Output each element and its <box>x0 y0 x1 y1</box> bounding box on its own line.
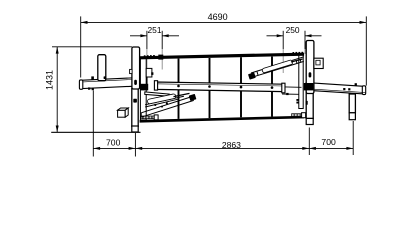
left post slot <box>134 80 137 85</box>
panel divider 3 <box>240 57 242 117</box>
ground line <box>51 131 140 133</box>
left leg top bolt <box>133 99 137 103</box>
left post side tab <box>130 69 133 73</box>
left beam end cap <box>79 80 82 89</box>
channel inner line <box>155 84 284 86</box>
left cylinder rod <box>174 93 190 96</box>
svg-text:4690: 4690 <box>208 12 228 22</box>
svg-text:251: 251 <box>148 25 162 35</box>
panel divider 1 <box>178 59 180 119</box>
right column side bolts <box>296 99 298 101</box>
dimension 2863 <box>135 128 309 156</box>
top rail bolt dots left <box>144 55 155 57</box>
right outrigger beam <box>306 83 365 94</box>
top rail bolt dots right <box>293 52 304 54</box>
right post bracket hole <box>316 60 320 65</box>
left outrigger beam <box>80 77 147 89</box>
dimension 4690 <box>81 16 367 85</box>
right beam end cap <box>362 86 365 95</box>
right rod adjuster block <box>302 113 306 118</box>
svg-text:2863: 2863 <box>222 140 241 150</box>
left main post <box>132 47 140 89</box>
dimension 250 <box>267 34 322 37</box>
right main post <box>306 41 314 94</box>
left column bracket bolt <box>151 72 153 75</box>
left column plate <box>140 57 146 120</box>
right post side bracket <box>314 58 323 68</box>
left column attach blob <box>140 84 148 91</box>
right beam top tab <box>355 83 357 85</box>
left arm pivot block <box>189 94 197 101</box>
dimension 700 left <box>93 90 135 156</box>
right leg <box>306 91 313 119</box>
panel divider 4 <box>271 57 273 117</box>
channel bolt 3 <box>240 86 243 89</box>
channel bolt 1 <box>177 85 180 88</box>
extension line 251 left <box>146 31 148 49</box>
channel right end plate <box>282 83 285 93</box>
extension line 251 right <box>161 31 163 49</box>
left cylinder <box>150 96 174 101</box>
dimension 700 right <box>309 121 353 155</box>
svg-text:700: 700 <box>106 137 121 147</box>
dimension 1431 <box>51 47 140 133</box>
right cylinder rod <box>291 59 303 62</box>
right foot <box>306 118 313 124</box>
left top link bar <box>145 92 169 96</box>
left beam under bolts <box>88 87 90 89</box>
left leg <box>132 89 138 127</box>
left threaded rod <box>141 116 157 119</box>
right outer foot <box>349 113 355 120</box>
connector bar to column <box>285 86 302 88</box>
extension line 250 right <box>304 31 306 49</box>
left column bracket <box>146 68 152 77</box>
channel left end cap <box>154 81 157 90</box>
left ground pad box <box>118 108 129 117</box>
right column plate <box>299 55 303 109</box>
right post slot <box>309 72 312 77</box>
right outer leg <box>349 94 355 113</box>
left beam top tab <box>91 76 94 79</box>
right cylinder <box>265 62 291 70</box>
right beam face bolts <box>343 88 345 90</box>
left arm post bolt <box>104 76 107 79</box>
channel bolt 4 <box>271 86 274 89</box>
svg-text:700: 700 <box>321 137 336 147</box>
right actuator arm <box>251 57 304 78</box>
beam junction block <box>304 83 314 90</box>
top rail <box>140 53 305 60</box>
right beam inner line <box>310 89 365 93</box>
connector node <box>286 93 288 95</box>
right leg top bracket <box>306 101 308 105</box>
left linkage bolts <box>154 104 156 106</box>
cross channel <box>155 82 284 92</box>
svg-text:1431: 1431 <box>45 70 55 90</box>
left middle link lines <box>145 96 184 105</box>
extension line 250 left <box>282 31 284 49</box>
bottom rail <box>140 116 305 123</box>
right arm pivot block <box>248 72 256 79</box>
svg-text:250: 250 <box>286 25 300 35</box>
left foot <box>132 126 138 132</box>
left beam inner line <box>83 79 140 82</box>
right threaded rod <box>292 114 306 117</box>
left arm post <box>98 55 106 81</box>
channel bolt 2 <box>208 85 211 88</box>
rail clamp block <box>158 55 163 60</box>
dimension 251 <box>130 34 179 37</box>
left swing arm <box>141 96 194 117</box>
left rod adjuster block <box>154 115 158 120</box>
panel divider 2 <box>209 58 211 118</box>
